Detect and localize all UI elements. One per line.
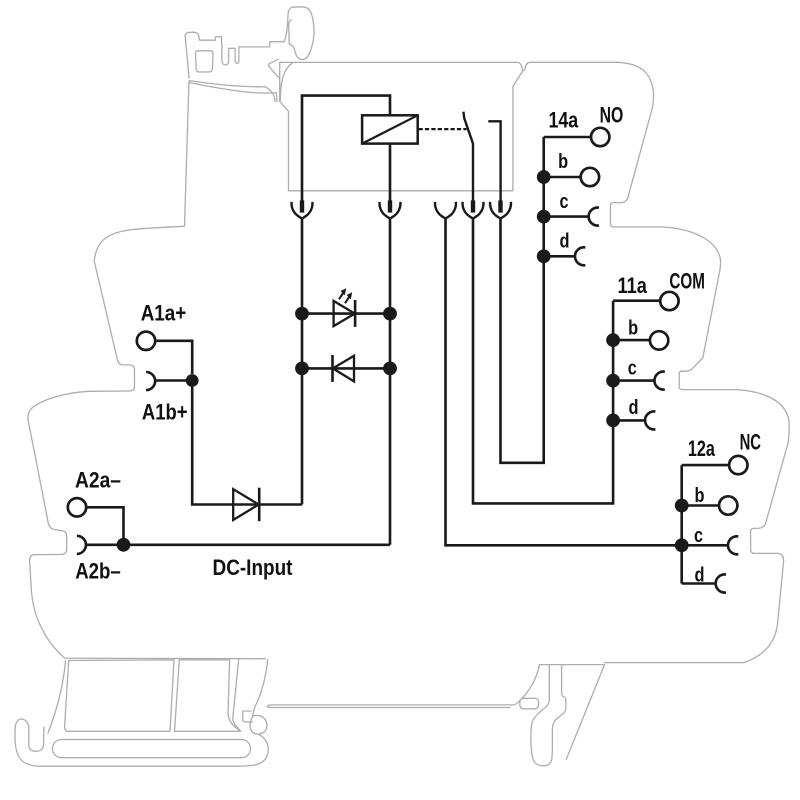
wire clamp3 to NC bus	[446, 218, 682, 546]
svg-text:d: d	[560, 230, 570, 253]
svg-text:A1a+: A1a+	[141, 300, 187, 325]
svg-text:NO: NO	[600, 102, 624, 127]
svg-text:12a: 12a	[688, 436, 716, 461]
label A2a-	[75, 468, 121, 493]
label 11a	[618, 273, 648, 298]
coil loop wire	[302, 96, 390, 202]
svg-text:b: b	[558, 150, 568, 173]
terminal 14d	[544, 247, 586, 265]
junction dot D2 right	[383, 362, 397, 376]
junction node A2	[117, 538, 131, 552]
svg-text:b: b	[628, 317, 638, 340]
label A1b+	[142, 399, 188, 424]
junction dot D2 left	[295, 362, 309, 376]
svg-text:DC-Input: DC-Input	[213, 555, 293, 580]
junction dot 14b	[537, 170, 551, 184]
diode D2	[302, 355, 390, 382]
junction dot 12c	[675, 538, 689, 552]
junction dot 12b	[675, 499, 689, 513]
svg-text:d: d	[629, 396, 639, 419]
label 14a	[549, 107, 579, 132]
svg-text:COM: COM	[669, 269, 705, 294]
DC-Input wire	[124, 543, 391, 546]
wire A1 node down	[192, 381, 302, 505]
terminal 14b	[544, 168, 599, 186]
label 12c	[694, 524, 703, 547]
junction dot 11d	[606, 414, 620, 428]
svg-text:c: c	[694, 524, 703, 547]
terminal 11d	[613, 411, 655, 429]
terminal A1a+	[137, 332, 192, 374]
wire clamp5 to NO bus	[501, 137, 544, 463]
terminal 12a	[682, 456, 748, 474]
svg-text:c: c	[628, 356, 637, 379]
label 14d	[560, 230, 570, 253]
svg-text:c: c	[560, 190, 569, 213]
label 12a	[688, 436, 716, 461]
DIN rail foot left	[15, 660, 268, 767]
clamp socket 5	[490, 200, 511, 218]
label DC-Input	[213, 555, 293, 580]
terminal 11b	[613, 331, 668, 349]
junction dot 14d	[537, 249, 551, 263]
terminal 11c	[613, 372, 665, 390]
label 14b	[558, 150, 568, 173]
svg-text:d: d	[695, 564, 705, 587]
svg-text:A1b+: A1b+	[142, 399, 188, 424]
terminal A2b-	[77, 536, 124, 554]
svg-text:11a: 11a	[618, 273, 648, 298]
label 12b	[695, 484, 705, 507]
terminal 11a	[613, 292, 679, 310]
label 11d	[629, 396, 639, 419]
housing left side	[28, 81, 266, 659]
housing top and right side	[280, 62, 790, 662]
label NO	[600, 102, 624, 127]
diode D3	[233, 488, 259, 522]
housing latch lever	[185, 7, 314, 102]
junction dot 11b	[606, 333, 620, 347]
terminal A1b+	[146, 372, 192, 390]
junction node A1	[186, 374, 199, 387]
terminal 12c	[682, 536, 739, 554]
NO contact hook	[488, 121, 500, 201]
terminal 14a	[544, 128, 610, 146]
wire clamp1 down	[301, 218, 304, 505]
junction dot 11c	[606, 374, 620, 388]
terminal A2a-	[68, 498, 124, 538]
svg-text:b: b	[695, 484, 705, 507]
clamp socket 4	[463, 200, 484, 218]
wire clamp4 to COM bus	[473, 218, 613, 504]
junction dot 14c	[537, 210, 551, 224]
actuator dashed link	[419, 128, 467, 130]
clamp socket 3	[435, 202, 456, 219]
terminal 12d	[682, 575, 726, 593]
svg-text:A2a–: A2a–	[75, 468, 121, 493]
label A1a+	[141, 300, 187, 325]
DIN rail clamp right	[516, 665, 605, 766]
label 11c	[628, 356, 637, 379]
housing relay compartment	[280, 63, 523, 191]
NC bus	[680, 465, 683, 583]
label A2b-	[75, 559, 121, 584]
clamp socket 2	[380, 200, 401, 218]
clamp socket 1	[292, 200, 313, 218]
relay coil K1	[362, 115, 418, 143]
junction dot LED left	[295, 307, 309, 321]
wire clamp2 down	[389, 218, 392, 545]
junction dot LED right	[383, 307, 397, 321]
terminal 14c	[544, 208, 599, 226]
label NC	[740, 430, 762, 455]
label COM	[669, 269, 705, 294]
DIN rail edge	[267, 705, 515, 708]
label 14c	[560, 190, 569, 213]
svg-text:A2b–: A2b–	[75, 559, 121, 584]
LED D1	[302, 288, 390, 327]
terminal 12b	[682, 496, 738, 514]
svg-text:NC: NC	[740, 430, 762, 455]
svg-text:14a: 14a	[549, 107, 579, 132]
label 12d	[695, 564, 705, 587]
label 11b	[628, 317, 638, 340]
switch contact blade	[463, 112, 473, 202]
